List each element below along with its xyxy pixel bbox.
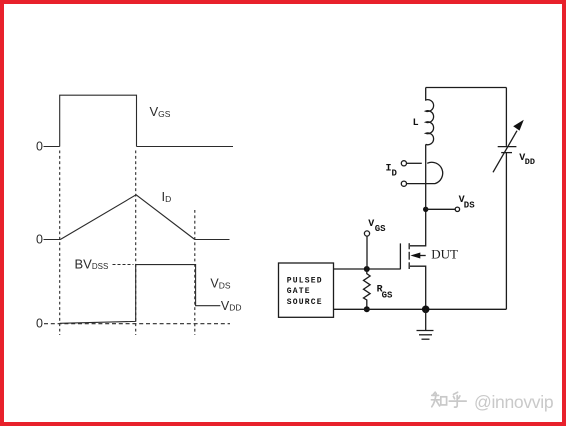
ground [425, 309, 427, 330]
svg-text:0: 0 [36, 140, 43, 154]
wire top rail [426, 87, 507, 89]
terminal VGS [364, 231, 369, 236]
svg-text:0: 0 [36, 233, 43, 247]
wire VGS zero baseline right [137, 146, 234, 148]
node junction RGS bottom [364, 306, 370, 312]
current probe top lead [407, 162, 422, 164]
transistor DUT body arrow [420, 255, 426, 257]
dashed timing line t2 [135, 151, 137, 336]
node junction source/ground [422, 306, 430, 314]
wire gate drive [334, 268, 401, 270]
BVDSS dashed leader [113, 264, 134, 266]
transistor DUT (gate bar) [399, 243, 401, 269]
wire drain column through probe [425, 144, 427, 209]
wire VGS zero baseline left [44, 146, 60, 148]
svg-text:DUT: DUT [431, 247, 458, 262]
wire bottom rail [334, 308, 507, 310]
wire VGS terminal to gate [366, 236, 368, 269]
svg-text:SOURCE: SOURCE [287, 298, 323, 307]
watermark [431, 392, 466, 407]
svg-text:PULSED: PULSED [287, 277, 323, 286]
ID triangle waveform [60, 195, 195, 240]
wire VDS tap [426, 208, 456, 210]
svg-text:L: L [413, 118, 419, 129]
wire right rail upper [505, 88, 507, 146]
transistor DUT source lead [410, 266, 426, 309]
current probe ID circles [401, 161, 406, 166]
svg-text:D: D [392, 169, 398, 179]
node VDS junction [423, 207, 428, 212]
resistor RGS [364, 269, 371, 309]
svg-text:@innovvip: @innovvip [474, 392, 553, 412]
source VDD variable arrow [493, 131, 517, 173]
svg-text:0: 0 [36, 317, 43, 331]
terminal VDS [455, 207, 459, 211]
dashed timing line t3 [194, 210, 196, 335]
svg-text:GS: GS [382, 291, 393, 301]
wire right rail lower [505, 153, 507, 310]
source VDD plates [498, 146, 517, 148]
svg-text:DD: DD [525, 157, 535, 167]
transistor DUT channel bars [408, 243, 410, 249]
pulsed gate source box [279, 263, 334, 317]
dashed timing line t1 [59, 151, 61, 336]
wire ID zero baseline left [44, 239, 61, 241]
transistor DUT drain lead [410, 209, 426, 246]
svg-text:DS: DS [464, 200, 475, 210]
VGS pulse waveform [60, 95, 137, 146]
inductor L [426, 88, 434, 145]
VDS waveform [60, 265, 221, 324]
svg-text:GS: GS [375, 224, 386, 234]
current probe bottom lead [407, 183, 436, 185]
svg-text:V: V [368, 219, 374, 230]
current probe loop [427, 162, 443, 183]
node junction gate/RGS [364, 266, 370, 272]
svg-text:GATE: GATE [287, 287, 311, 296]
wire ID zero baseline right [195, 239, 230, 241]
VDS zero dashed line [44, 323, 230, 325]
